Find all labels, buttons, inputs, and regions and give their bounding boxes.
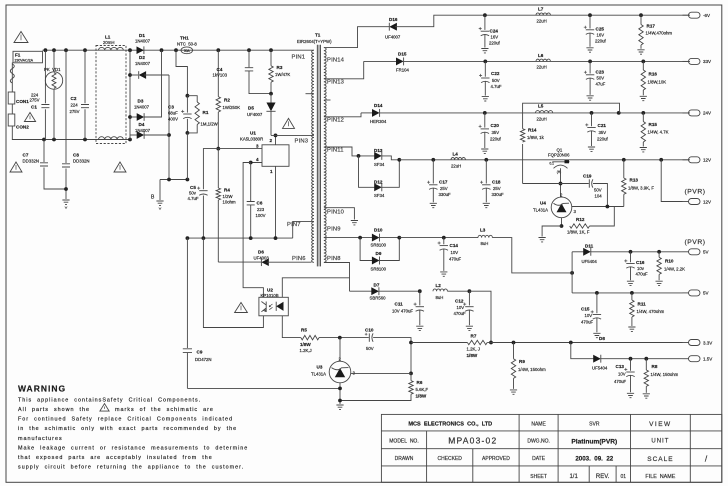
svg-text:-6V: -6V [703,13,710,18]
svg-text:35V: 35V [599,130,607,135]
svg-text:DRAWN: DRAWN [395,456,414,462]
svg-text:PIN14: PIN14 [327,58,345,64]
svg-text:MCS ELECTRONICS CO., LTD: MCS ELECTRONICS CO., LTD [408,421,492,427]
connector CON1 [8,92,15,104]
svg-text:24V: 24V [703,111,711,116]
svg-text:C12: C12 [455,299,464,304]
svg-text:1/8W, 1k: 1/8W, 1k [527,135,545,140]
svg-text:PIN12: PIN12 [327,117,344,123]
svg-text:SF34: SF34 [374,162,385,167]
resistor R17 [640,15,642,24]
op-amp U1 KA5L0380R [262,145,289,167]
wire -6V rail [395,15,690,27]
svg-text:D4: D4 [139,122,145,127]
wire PIN13 [324,61,364,78]
svg-text:1/4W, 470ohm: 1/4W, 470ohm [637,309,665,314]
diode D15 [364,60,398,62]
svg-text:D8: D8 [599,336,605,341]
svg-text:PIN3: PIN3 [295,138,309,144]
ground [656,281,663,285]
svg-text:50V: 50V [492,78,500,83]
svg-text:TH1: TH1 [180,36,189,41]
svg-text:R14: R14 [528,127,537,132]
svg-text:5.6K,F: 5.6K,F [416,387,429,392]
svg-text:CON2: CON2 [16,125,29,130]
wire stub [306,93,314,95]
svg-text:223: 223 [257,207,265,212]
inductor L3 [478,235,492,237]
diode D10 [372,234,380,242]
wire U1 fb to opto [243,163,263,298]
wire PIN3 [271,134,314,136]
warning triangle [283,118,295,128]
varistor VD1 [53,50,55,72]
svg-text:220uf: 220uf [490,136,502,141]
wire [129,50,131,139]
svg-text:1N4007: 1N4007 [134,104,150,109]
svg-text:470uF: 470uF [581,319,594,324]
wire U3 ref [339,338,341,362]
svg-text:10V: 10V [618,371,626,376]
terminal -6V [689,12,701,18]
svg-text:R5: R5 [301,328,307,333]
svg-text:VIEW: VIEW [649,421,672,428]
svg-text:TL431A: TL431A [533,207,548,212]
ground [440,272,447,276]
svg-text:C9: C9 [197,350,203,355]
svg-text:1/1: 1/1 [569,474,578,480]
inductor L2 [433,289,447,291]
svg-text:C11: C11 [395,302,404,307]
ground [481,49,488,53]
capacitor C18 [485,160,487,184]
ground [593,333,600,337]
svg-text:C3: C3 [168,104,174,109]
svg-text:L5: L5 [538,103,544,108]
wire HV jog [176,50,187,95]
warning triangle [24,113,35,122]
svg-text:220uf: 220uf [597,136,609,141]
ground [62,200,69,204]
svg-text:EIR2604(T+YPW): EIR2604(T+YPW) [297,39,332,44]
ground [643,394,650,398]
svg-text:R15: R15 [649,122,658,127]
op-amp U4 TL431A [551,197,572,218]
svg-text:1/8W,10K: 1/8W,10K [648,79,667,84]
svg-text:2: 2 [270,138,273,143]
svg-text:UF4007: UF4007 [247,112,263,117]
svg-text:35V: 35V [492,130,500,135]
capacitor C6 [250,163,252,202]
svg-text:WARNING: WARNING [18,384,66,394]
ground [627,281,634,285]
svg-text:F1: F1 [15,52,21,57]
svg-text:CON1: CON1 [16,99,29,104]
svg-text:SVR: SVR [589,421,600,427]
svg-text:470uF: 470uF [449,256,462,261]
inductor L5 [536,111,553,113]
wire 12V rail [399,159,550,161]
svg-text:4.7uF: 4.7uF [491,84,502,89]
wire [410,343,412,374]
svg-text:Platinum(PVR): Platinum(PVR) [571,438,617,445]
wire [12,126,130,140]
ground [510,390,517,394]
svg-text:D6: D6 [258,250,264,255]
svg-text:DATE: DATE [532,456,546,462]
wire U1 pin2 [275,135,277,144]
wire opto emitter [282,316,301,338]
svg-text:1/8W: 1/8W [300,342,311,347]
svg-text:8uH: 8uH [436,295,444,300]
resistor R14 [522,144,524,184]
ground [336,405,343,409]
svg-text:C14: C14 [450,243,459,248]
svg-text:PIN7: PIN7 [287,222,301,228]
svg-text:SBR560: SBR560 [370,296,387,301]
svg-text:PIN8: PIN8 [327,256,341,262]
svg-text:D7: D7 [374,282,380,287]
svg-text:22uH: 22uH [537,117,547,122]
svg-text:20mH: 20mH [103,40,114,45]
svg-text:230VAC/2A: 230VAC/2A [15,59,34,63]
capacitor C10 [368,333,370,341]
svg-text:PIN1: PIN1 [292,54,306,60]
capacitor C16 [630,252,632,262]
svg-text:1kV103: 1kV103 [213,73,228,78]
svg-text:L3: L3 [480,228,486,233]
svg-text:L6: L6 [538,53,544,58]
svg-text:HER304: HER304 [370,119,387,124]
wire U3 anode [339,383,341,404]
svg-text:25V: 25V [440,186,448,191]
svg-text:FR104: FR104 [396,68,410,73]
resistor R16 [642,61,644,70]
svg-text:470uF: 470uF [636,272,649,277]
svg-text:R3: R3 [277,65,283,70]
svg-text:1.2K,J: 1.2K,J [300,348,312,353]
svg-text:220uf: 220uf [595,39,607,44]
capacitor C8 [65,50,67,163]
wire 12V rail [551,159,691,161]
ground [483,203,490,207]
svg-text:100V: 100V [256,213,266,218]
wire PIN14 [324,27,389,48]
wire node B [160,179,187,181]
svg-text:1.2K, J: 1.2K, J [467,346,480,351]
svg-text:C25: C25 [596,27,605,32]
ground [482,97,489,101]
svg-text:C4: C4 [217,67,223,72]
svg-text:C10: C10 [365,327,374,332]
capacitor C20 [484,113,486,128]
svg-text:L7: L7 [538,7,544,12]
capacitor C24 [484,15,486,30]
svg-text:R4: R4 [224,188,230,193]
svg-text:R10: R10 [665,259,674,264]
svg-text:For continued Safety replac: For continued Safety replace Critical Co… [18,417,233,423]
op-amp U3 TL431A [329,361,351,383]
wire U4 ref [572,206,624,208]
svg-text:16V: 16V [597,33,605,38]
capacitor C7 [43,140,45,163]
resistor R3 [270,50,272,66]
wire PIN12 [324,113,361,117]
svg-text:C2: C2 [71,96,77,101]
svg-text:224: 224 [71,103,79,108]
svg-text:FILE NAME: FILE NAME [645,474,675,480]
svg-text:R8: R8 [652,364,658,369]
svg-text:1M,1/2W: 1M,1/2W [201,121,219,126]
svg-text:manufactures: manufactures [18,436,63,442]
warning triangle [114,162,126,172]
resistor R7 [411,342,467,344]
svg-text:R2: R2 [224,98,230,103]
ground [588,147,595,151]
resistor R11 [631,293,633,300]
capacitor C22 [484,61,486,76]
svg-text:All parts shown the: All parts shown the [18,407,90,413]
ground [430,203,437,207]
capacitor C1 [44,50,46,103]
svg-text:marks of the schimatic are: marks of the schimatic are [115,407,214,413]
svg-text:PIN11: PIN11 [327,148,344,154]
svg-text:C15: C15 [581,306,590,311]
svg-text:DD472N: DD472N [195,357,211,362]
svg-text:470uF: 470uF [614,379,627,384]
svg-text:This appliance containsSafet: This appliance containsSafety Critical C… [18,397,201,403]
svg-text:1/4W, 4.7K: 1/4W, 4.7K [648,130,669,135]
capacitor C2 [84,50,86,103]
wire [186,238,188,348]
ground [628,327,635,331]
svg-text:D13: D13 [374,148,383,153]
svg-text:104: 104 [595,194,603,199]
capacitor C21 [591,113,593,126]
svg-text:50V: 50V [366,346,374,351]
svg-text:U2: U2 [267,288,273,293]
capacitor C23 [589,61,591,73]
svg-text:R1: R1 [203,110,209,115]
svg-text:D9: D9 [376,251,382,256]
wire top bus [43,49,314,51]
svg-text:12V: 12V [703,199,711,204]
wire opto collector [282,278,349,298]
svg-text:3: 3 [256,143,259,148]
diode D11 [572,251,585,253]
svg-text:22uH: 22uH [451,163,461,168]
svg-text:SHEET: SHEET [530,474,547,480]
wire PIN9 [324,237,374,239]
transformer T1 core [317,45,320,267]
svg-text:R11: R11 [638,301,647,306]
svg-text:3.3V: 3.3V [703,340,712,345]
diode D13 [359,155,377,157]
svg-text:8uH: 8uH [481,241,489,246]
diode D6 [218,261,261,263]
svg-text:D11: D11 [585,243,594,248]
svg-text:1/4W, 150ohm: 1/4W, 150ohm [518,367,546,372]
svg-text:1/8W: 1/8W [416,393,427,398]
svg-text:C19: C19 [583,174,592,179]
svg-text:FQP20N06: FQP20N06 [548,152,570,157]
svg-text:R13: R13 [630,178,639,183]
svg-text:470uF: 470uF [454,311,467,316]
svg-text:DD332N: DD332N [23,158,39,163]
wire [187,387,340,389]
svg-text:D1: D1 [139,33,145,38]
diode D16 [389,23,397,31]
svg-text:220uf: 220uf [489,40,501,45]
svg-text:D10: D10 [374,228,383,233]
resistor R10 [658,252,660,257]
svg-text:MPA03-02: MPA03-02 [448,436,497,446]
svg-text:L4: L4 [453,151,459,156]
svg-text:5V: 5V [703,291,709,296]
svg-text:R16: R16 [649,72,658,77]
ground [587,96,594,100]
thermistor TH1 [181,47,193,54]
capacitor C11 [419,291,421,305]
svg-text:UNIT: UNIT [651,439,669,445]
wire U1 pin1 [275,166,277,238]
svg-text:50v: 50v [189,190,197,195]
svg-text:1/8W, 3.9K, F: 1/8W, 3.9K, F [628,185,654,190]
svg-text:2003. 09. 22: 2003. 09. 22 [575,455,613,462]
svg-text:1/4W, 150ohm: 1/4W, 150ohm [651,372,679,377]
diode D3 [130,116,139,118]
wire primary rail [187,237,292,239]
svg-text:DWG.NO.: DWG.NO. [527,439,550,445]
svg-text:R17: R17 [647,24,656,29]
svg-text:1/4W,470ohm: 1/4W,470ohm [646,30,673,35]
svg-text:22uH: 22uH [537,65,547,70]
svg-text:C7: C7 [23,153,29,158]
svg-text:C22: C22 [491,71,500,76]
wire 5V row [572,292,682,294]
capacitor C3 [186,96,188,113]
wire stub [324,99,331,101]
svg-text:D14: D14 [374,103,383,108]
capacitor C25 [589,15,591,28]
svg-text:C5: C5 [190,185,196,190]
svg-text:CHECKED: CHECKED [437,456,462,462]
capacitor C14 [443,238,445,245]
ground [586,48,593,52]
svg-text:1/8W, 1K, F: 1/8W, 1K, F [567,230,590,235]
resistor R8 [645,359,647,370]
wire opto cathode [203,238,263,327]
resistor R2 [217,50,219,96]
svg-text:5V: 5V [703,250,709,255]
terminal 3.3V [689,340,701,346]
svg-text:1.5V: 1.5V [703,357,712,362]
svg-text:10v: 10v [637,266,645,271]
svg-text:Make leakage current or re: Make leakage current or resistance measu… [18,445,248,451]
svg-text:4: 4 [256,157,259,162]
svg-text:D16: D16 [389,17,398,22]
ground [481,149,488,153]
svg-text:400V: 400V [168,117,178,122]
svg-text:in the schimatic only with: in the schimatic only with exact parts r… [18,426,237,432]
svg-text:25V: 25V [493,186,501,191]
inductor L6 [536,59,550,61]
resistor R9 [513,343,515,359]
svg-text:R12: R12 [576,217,585,222]
svg-text:10V: 10V [451,250,459,255]
svg-text:that exposed parts are acc: that exposed parts are acceptably insula… [18,455,213,461]
svg-text:U1: U1 [250,131,256,136]
wire U3 pin3 [351,372,411,374]
wire [11,104,13,114]
svg-text:(PVR): (PVR) [685,189,706,196]
svg-text:1N4007: 1N4007 [135,61,151,66]
terminal 5V [689,290,701,296]
capacitor C17 [432,160,434,184]
capacitor C19 [588,179,590,187]
svg-text:C18: C18 [492,179,501,184]
svg-text:275V: 275V [30,98,40,103]
svg-text:10V: 10V [457,305,465,310]
svg-text:1/4W, 2.2K: 1/4W, 2.2K [664,266,685,271]
inductor L1 [96,46,126,144]
svg-text:0.1: 0.1 [550,161,555,165]
svg-text:1: 1 [270,169,273,174]
terminal 12V [689,157,701,163]
diode D8 [571,343,595,359]
node [44,48,48,52]
terminal (PVR) 5V [689,249,701,255]
table title block grid [381,414,721,482]
warning triangle [14,32,28,43]
svg-text:50V: 50V [594,188,602,193]
wire PIN8 [324,263,350,292]
svg-text:33V: 33V [703,59,711,64]
svg-text:MODEL NO.: MODEL NO. [389,439,418,445]
svg-text:KP1010B: KP1010B [261,293,279,298]
resistor R12 [570,224,590,228]
capacitor C13 [630,359,632,371]
svg-text:KA5L0380R: KA5L0380R [240,137,263,142]
capacitor C9 [186,353,188,388]
svg-text:PIN6: PIN6 [292,256,306,262]
opto U2 KP1010 [259,297,288,316]
svg-text:22uH: 22uH [537,19,547,24]
diode D9 [360,238,374,261]
svg-text:U4: U4 [540,201,546,206]
ground [627,393,634,397]
svg-text:1N4007: 1N4007 [135,128,151,133]
capacitor C5 [203,149,218,190]
svg-text:PIN10: PIN10 [327,209,344,215]
wire 3.3V row [491,342,683,344]
svg-text:10ohm: 10ohm [223,200,237,205]
svg-text:47uF: 47uF [596,82,606,87]
svg-text:(PVR): (PVR) [685,239,706,246]
svg-text:R6: R6 [417,380,423,385]
svg-text:C17: C17 [439,179,448,184]
svg-text:SCALE: SCALE [647,456,673,463]
wire U1 pin3 [218,148,262,150]
svg-text:T1: T1 [315,33,321,38]
svg-text:4.7uF: 4.7uF [188,196,199,201]
transformer T1 primary winding [312,50,314,262]
ground [466,326,473,330]
resistor R6 [410,373,412,380]
wire PIN7 [293,221,314,238]
svg-text:10V: 10V [585,313,593,318]
svg-text:16V: 16V [491,34,499,39]
